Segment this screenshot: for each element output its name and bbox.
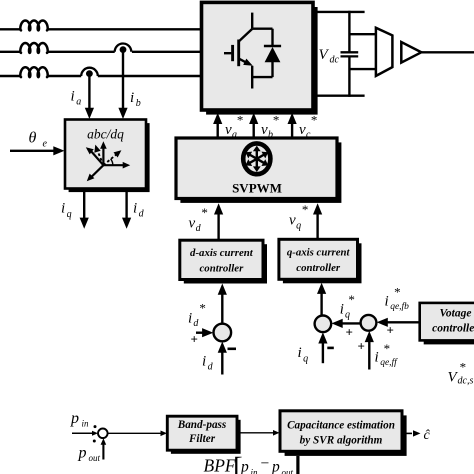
svg-text:b: b xyxy=(136,98,141,109)
svg-text:SVPWM: SVPWM xyxy=(232,180,282,195)
wire phase-1 line xyxy=(0,28,202,30)
svg-text:out: out xyxy=(282,468,294,474)
wire v_b* arrow into inverter xyxy=(249,113,258,138)
wire i_qe,ff into S3 xyxy=(365,331,374,370)
current sensor phase-b (bump+dot) xyxy=(115,43,132,53)
svg-text:*: * xyxy=(383,341,390,356)
label v_c* xyxy=(299,113,317,141)
svg-text:abc/dq: abc/dq xyxy=(87,127,124,142)
wire voltage controller to S3 arrow xyxy=(377,318,420,327)
svg-text:controller: controller xyxy=(200,262,245,274)
svg-text:p: p xyxy=(240,459,249,474)
wire p_in arrow into S4 xyxy=(72,431,98,436)
wire dc- rail xyxy=(313,94,365,96)
label plus dot at S4 xyxy=(94,425,97,428)
wire S3 to S2 arrow xyxy=(332,319,361,328)
svg-text:v: v xyxy=(299,122,306,138)
svg-text:i: i xyxy=(340,302,344,318)
svg-text:BPF: BPF xyxy=(204,456,236,474)
svg-text:*: * xyxy=(199,301,206,316)
svg-text:v: v xyxy=(261,122,268,138)
block q-axis current controller xyxy=(279,239,362,283)
wire v_c* arrow into inverter xyxy=(288,113,297,138)
block inverter xyxy=(202,2,318,114)
buffer triangle xyxy=(401,42,421,63)
svg-text:p: p xyxy=(70,410,79,427)
label v_b* xyxy=(261,113,279,141)
svg-text:i: i xyxy=(130,90,134,106)
block band-pass filter xyxy=(167,416,240,454)
wire i_d* arrow into S1 xyxy=(196,328,213,337)
svg-text:a: a xyxy=(76,96,81,107)
svg-text:ĉ: ĉ xyxy=(424,428,431,443)
label BPF formula xyxy=(204,452,294,474)
abc/dq dashed axis upper-right xyxy=(103,148,123,166)
IGBT collector lead xyxy=(252,13,272,29)
label minus at S1 xyxy=(228,348,237,351)
block capacitance estimation xyxy=(280,411,407,456)
wire i_q feedback into S2 xyxy=(318,332,327,363)
wire sum2 to q-axis controller xyxy=(317,283,326,316)
svg-text:qe,ff: qe,ff xyxy=(380,357,398,368)
label q-axis current controller xyxy=(287,247,351,274)
svg-text:*: * xyxy=(348,292,355,307)
label i_q feedback xyxy=(298,345,309,364)
svg-text:by SVR algorithm: by SVR algorithm xyxy=(300,434,383,446)
svg-text:+: + xyxy=(346,325,353,340)
label p_in xyxy=(70,410,89,429)
svg-text:q: q xyxy=(67,209,72,220)
wire S4 to band-pass filter xyxy=(108,431,167,437)
svg-text:q: q xyxy=(345,309,350,320)
wire phase-2 line xyxy=(0,51,202,53)
svg-text:b: b xyxy=(268,129,273,140)
IGBT gate lead xyxy=(224,52,231,54)
svg-text:*: * xyxy=(301,202,308,217)
summing junction S4 xyxy=(98,429,108,439)
block SVPWM xyxy=(176,138,341,203)
label v_d* xyxy=(189,205,208,234)
label i_a xyxy=(71,89,82,108)
label i_qe,ff* xyxy=(375,341,399,368)
svg-text:in: in xyxy=(251,468,259,474)
wire i_q arrow down xyxy=(80,189,89,229)
svg-text:i: i xyxy=(385,294,389,310)
svg-text:*: * xyxy=(459,360,466,375)
svg-text:v: v xyxy=(289,213,296,229)
label i_b xyxy=(130,90,141,109)
svg-text:p: p xyxy=(78,445,87,462)
svg-text:q-axis current: q-axis current xyxy=(287,247,351,259)
svg-text:v: v xyxy=(189,216,196,232)
abc/dq dashed axis up-left xyxy=(92,144,103,166)
wire v_d* arrow into SVPWM xyxy=(214,203,223,240)
label i_qe,fb* xyxy=(385,285,410,313)
svg-text:Band-pass: Band-pass xyxy=(177,419,227,431)
wire band-pass to SVR block xyxy=(237,430,280,436)
wire i_d feedback into S1 xyxy=(218,342,227,375)
wire sense tap upper xyxy=(349,33,376,35)
IGBT gate bar xyxy=(231,45,234,61)
abc/dq axis arrow up xyxy=(100,141,107,165)
label i_d feedback xyxy=(202,354,214,373)
block abc/dq xyxy=(65,120,150,193)
svg-text:*: * xyxy=(272,113,279,128)
svg-text:q: q xyxy=(303,353,308,364)
label band-pass filter xyxy=(177,419,227,445)
label voltage controller xyxy=(432,308,474,335)
current sensor phase-a (bump+dot) xyxy=(81,68,98,77)
svg-text:a: a xyxy=(232,129,237,140)
wire i_a arrow down to abc/dq xyxy=(85,74,94,119)
summing junction S2 xyxy=(315,316,332,333)
label capacitance estimation xyxy=(287,419,395,446)
wire v_a* arrow into inverter xyxy=(213,113,222,138)
svg-text:*: * xyxy=(394,285,401,300)
svg-text:*: * xyxy=(236,113,243,128)
wire i_d arrow down xyxy=(122,189,131,229)
inductor phase-3 xyxy=(20,67,47,77)
svg-text:−: − xyxy=(261,455,270,472)
svg-text:+: + xyxy=(191,332,198,347)
svg-text:out: out xyxy=(89,453,101,463)
label V_dc,s* reference xyxy=(448,360,474,387)
svg-text:i: i xyxy=(202,354,206,370)
svg-text:i: i xyxy=(188,311,192,327)
svg-text:c: c xyxy=(306,129,311,140)
abc/dq axis arrow right xyxy=(103,162,130,169)
wire p_out arrow into S4 xyxy=(101,438,107,459)
svg-text:controller: controller xyxy=(296,262,341,274)
label minus dot at S4 xyxy=(93,440,96,443)
label i_q xyxy=(61,201,72,221)
svg-text:Filter: Filter xyxy=(188,433,216,445)
wire v_q* arrow into SVPWM xyxy=(313,203,322,239)
label V_dc xyxy=(319,47,340,65)
svg-text:+: + xyxy=(358,339,365,354)
svg-text:i: i xyxy=(375,350,379,366)
svg-text:qe,fb: qe,fb xyxy=(390,301,409,312)
wire i_b arrow down to abc/dq xyxy=(118,50,127,119)
wire SVR output arrow xyxy=(402,430,421,436)
IGBT emitter lead xyxy=(252,66,272,89)
sensor trapezoid xyxy=(376,28,393,76)
svg-text:p: p xyxy=(271,459,280,474)
diode D1 (antiparallel) xyxy=(264,29,281,77)
label v_a* xyxy=(225,113,243,141)
svg-text:in: in xyxy=(82,419,90,429)
wire formula connector xyxy=(296,456,299,474)
IGBT emitter diagonal with arrow xyxy=(239,59,255,69)
wire phase-3 line xyxy=(0,75,202,77)
svg-text:Votage: Votage xyxy=(440,308,472,320)
svg-text:d-axis current: d-axis current xyxy=(190,247,254,259)
wire cap branch lower xyxy=(348,56,350,96)
label minus at S2 xyxy=(327,347,334,350)
wire buffer output xyxy=(421,51,474,53)
svg-text:i: i xyxy=(133,201,137,217)
abc/dq angle arc xyxy=(111,159,113,166)
svg-text:e: e xyxy=(43,139,48,150)
svg-text:i: i xyxy=(298,345,302,361)
svg-text:i: i xyxy=(61,201,65,217)
block voltage controller xyxy=(420,303,474,345)
summing junction S1 xyxy=(214,324,232,342)
label theta_e xyxy=(29,130,48,150)
SVPWM hexagon icon xyxy=(243,143,270,174)
label i_d xyxy=(133,201,145,220)
svg-text:i: i xyxy=(71,89,75,105)
block d-axis current controller xyxy=(180,240,267,283)
capacitor C_dc xyxy=(341,52,359,56)
wire theta_e arrow into abc/dq xyxy=(10,146,65,155)
svg-text:v: v xyxy=(225,122,232,138)
summing junction S3 xyxy=(361,315,377,331)
label i_q* reference xyxy=(340,292,355,320)
svg-text:θ: θ xyxy=(29,130,37,147)
IGBT body bar xyxy=(237,40,240,67)
inductor phase-1 xyxy=(20,21,47,31)
svg-text:q: q xyxy=(296,221,301,232)
IGBT collector diagonal xyxy=(239,29,253,42)
svg-text:*: * xyxy=(310,113,317,128)
abc/dq axis arrow lower-left xyxy=(84,165,103,183)
svg-text:dc: dc xyxy=(330,54,340,65)
svg-text:*: * xyxy=(201,205,208,220)
wire cap branch upper xyxy=(348,11,350,53)
svg-text:Capacitance estimation: Capacitance estimation xyxy=(287,419,395,431)
label i_d* reference xyxy=(188,301,206,330)
wire dc+ rail xyxy=(313,11,365,13)
label d-axis current controller xyxy=(190,247,254,274)
wire sense tap lower xyxy=(349,68,376,70)
inductor phase-2 xyxy=(20,43,47,53)
label p_out xyxy=(78,445,101,464)
label v_q* xyxy=(289,202,308,232)
svg-text:dc,s: dc,s xyxy=(458,376,474,387)
wire sum1 to d-axis controller xyxy=(218,284,227,324)
svg-text:+: + xyxy=(387,323,394,338)
svg-text:controller: controller xyxy=(432,323,474,335)
abc/dq axis arrow upper-left xyxy=(84,145,104,166)
